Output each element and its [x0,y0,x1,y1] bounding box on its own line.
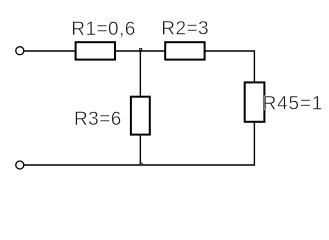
svg-text:R1=0,6: R1=0,6 [71,19,136,40]
svg-text:R3=6: R3=6 [74,109,122,130]
svg-text:R2=3: R2=3 [161,19,209,40]
svg-text:R45=1: R45=1 [263,94,324,115]
